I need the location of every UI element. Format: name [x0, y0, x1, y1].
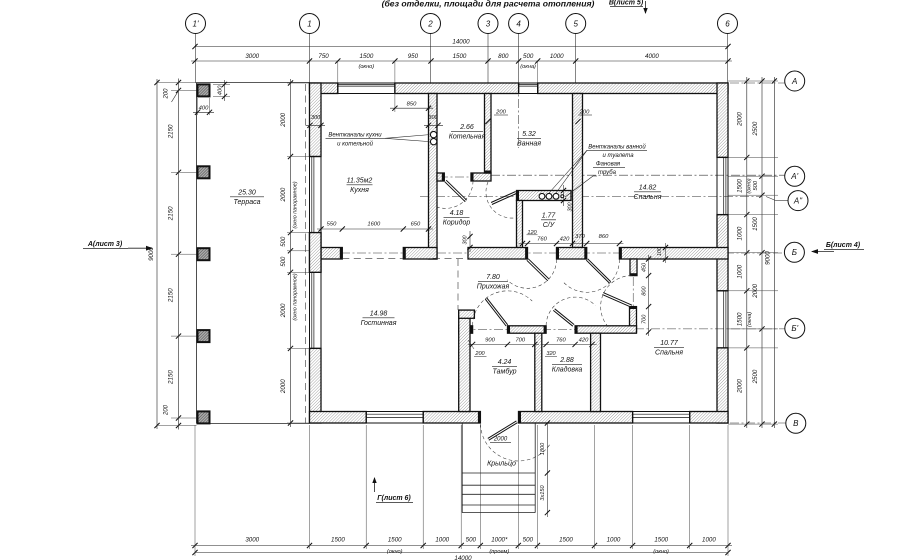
svg-text:1500: 1500: [559, 537, 573, 544]
svg-text:Крыльцо: Крыльцо: [487, 461, 516, 468]
svg-text:14000: 14000: [452, 39, 470, 46]
svg-text:1000: 1000: [435, 537, 449, 544]
svg-text:2000: 2000: [737, 112, 744, 127]
svg-text:2.66: 2.66: [459, 124, 474, 131]
svg-text:1500: 1500: [453, 53, 467, 60]
svg-text:(окно панорамное): (окно панорамное): [293, 181, 299, 228]
svg-text:1': 1': [193, 19, 199, 28]
svg-text:700: 700: [641, 314, 647, 324]
svg-text:Б': Б': [791, 324, 798, 333]
svg-text:650: 650: [411, 222, 421, 228]
svg-text:500: 500: [523, 537, 534, 544]
svg-text:370: 370: [575, 234, 585, 240]
svg-text:800: 800: [498, 53, 509, 60]
svg-text:Ванная: Ванная: [517, 141, 541, 148]
svg-text:200: 200: [495, 110, 506, 116]
svg-text:450: 450: [641, 262, 647, 272]
svg-text:9000: 9000: [148, 247, 155, 261]
svg-text:Гостинная: Гостинная: [361, 320, 397, 327]
svg-text:5.32: 5.32: [522, 131, 536, 138]
svg-text:(окно панорамное): (окно панорамное): [293, 273, 299, 320]
svg-text:3х150: 3х150: [540, 484, 546, 500]
svg-text:Прихожая: Прихожая: [477, 284, 510, 291]
svg-text:900: 900: [485, 337, 495, 343]
svg-text:2000: 2000: [493, 437, 508, 443]
svg-text:850: 850: [407, 102, 417, 108]
svg-text:700: 700: [515, 337, 525, 343]
svg-text:760: 760: [556, 337, 566, 343]
svg-text:Г(лист 6): Г(лист 6): [377, 495, 411, 502]
svg-text:200: 200: [164, 404, 170, 416]
svg-text:1500: 1500: [752, 217, 759, 231]
svg-text:860: 860: [599, 234, 609, 240]
svg-text:Кухня: Кухня: [350, 187, 369, 194]
svg-text:2: 2: [427, 19, 433, 28]
svg-text:2.88: 2.88: [559, 357, 574, 364]
svg-text:400: 400: [218, 85, 224, 95]
svg-text:Спальня: Спальня: [634, 194, 662, 201]
svg-text:550: 550: [327, 222, 337, 228]
svg-text:300: 300: [568, 203, 574, 212]
svg-text:1000: 1000: [737, 264, 744, 278]
svg-text:1000: 1000: [737, 226, 744, 240]
svg-text:(окно): (окно): [358, 64, 374, 70]
svg-text:420: 420: [560, 237, 570, 243]
svg-text:1.77: 1.77: [542, 213, 557, 220]
svg-text:Терраса: Терраса: [233, 199, 260, 206]
svg-text:Коридор: Коридор: [443, 219, 471, 227]
svg-text:1000: 1000: [550, 53, 564, 60]
svg-text:1500: 1500: [360, 53, 374, 60]
svg-text:(окно): (окно): [653, 549, 669, 555]
svg-text:300: 300: [428, 115, 438, 121]
svg-text:(окно): (окно): [747, 178, 753, 193]
svg-text:1: 1: [307, 19, 311, 28]
svg-text:1800: 1800: [540, 442, 546, 455]
svg-text:2000: 2000: [280, 379, 287, 394]
svg-text:Вентканалы кухни: Вентканалы кухни: [328, 133, 382, 139]
svg-text:А: А: [791, 77, 797, 86]
svg-text:2000: 2000: [737, 379, 744, 394]
svg-text:А": А": [793, 197, 803, 206]
svg-text:(проем): (проем): [489, 549, 509, 555]
svg-text:2000: 2000: [280, 303, 287, 318]
svg-text:100: 100: [657, 247, 663, 256]
svg-text:Котельная: Котельная: [449, 134, 486, 141]
svg-text:(окна): (окна): [747, 312, 753, 327]
svg-text:10.77: 10.77: [660, 340, 679, 347]
svg-text:Б(лист 4): Б(лист 4): [826, 242, 861, 249]
svg-text:200: 200: [164, 88, 170, 100]
svg-text:В: В: [793, 419, 799, 428]
svg-text:(окно): (окно): [387, 549, 403, 555]
svg-text:3000: 3000: [245, 53, 259, 60]
svg-text:4: 4: [516, 19, 521, 28]
svg-text:2000: 2000: [280, 187, 287, 202]
svg-text:500: 500: [523, 53, 534, 60]
svg-text:1000: 1000: [702, 537, 716, 544]
svg-text:950: 950: [408, 53, 419, 60]
svg-text:4.24: 4.24: [498, 359, 512, 366]
svg-text:2150: 2150: [168, 370, 175, 385]
svg-text:1600: 1600: [367, 222, 381, 228]
svg-text:Фановая: Фановая: [596, 162, 621, 168]
svg-text:1000: 1000: [607, 537, 621, 544]
svg-text:14000: 14000: [454, 555, 472, 560]
svg-text:и котельной: и котельной: [337, 140, 373, 147]
svg-text:11.35м2: 11.35м2: [347, 178, 373, 185]
svg-text:А(лист 3): А(лист 3): [87, 241, 123, 248]
svg-text:3: 3: [486, 19, 491, 28]
svg-text:Тамбур: Тамбур: [493, 368, 517, 376]
svg-text:4.18: 4.18: [450, 210, 464, 217]
svg-text:2500: 2500: [752, 369, 759, 384]
svg-text:500: 500: [281, 256, 287, 267]
svg-text:300: 300: [311, 115, 321, 121]
svg-text:(окна): (окна): [520, 64, 536, 70]
svg-text:2500: 2500: [752, 121, 759, 136]
svg-text:400: 400: [199, 106, 209, 112]
svg-text:4000: 4000: [645, 53, 659, 60]
svg-text:500: 500: [466, 537, 477, 544]
svg-text:труба: труба: [598, 170, 617, 176]
svg-text:5: 5: [573, 19, 578, 28]
svg-text:А': А': [790, 172, 798, 181]
svg-text:1500: 1500: [331, 537, 345, 544]
svg-text:1500: 1500: [654, 537, 668, 544]
svg-text:Вентканалы ванной: Вентканалы ванной: [588, 144, 646, 151]
svg-text:Кладовка: Кладовка: [552, 366, 583, 374]
svg-text:1500: 1500: [737, 312, 744, 326]
svg-text:420: 420: [579, 337, 589, 343]
svg-text:и туалета: и туалета: [602, 153, 634, 159]
svg-text:14.82: 14.82: [639, 185, 657, 192]
svg-text:В(лист 5): В(лист 5): [609, 0, 644, 7]
svg-text:1500: 1500: [388, 537, 402, 544]
svg-text:Спальня: Спальня: [655, 350, 683, 357]
svg-text:200: 200: [579, 110, 590, 116]
svg-text:25.30: 25.30: [237, 190, 256, 197]
svg-text:760: 760: [537, 237, 547, 243]
svg-text:(без отделки, площади для расч: (без отделки, площади для расчета отопле…: [382, 0, 595, 9]
svg-text:2150: 2150: [168, 206, 175, 221]
svg-text:2000: 2000: [280, 112, 287, 127]
svg-text:С/У: С/У: [543, 222, 556, 229]
svg-text:7.80: 7.80: [486, 274, 500, 281]
svg-text:14.98: 14.98: [370, 311, 388, 318]
svg-text:500: 500: [281, 236, 287, 247]
svg-text:1500: 1500: [737, 179, 744, 193]
svg-text:2150: 2150: [168, 288, 175, 303]
svg-text:2150: 2150: [168, 124, 175, 139]
svg-text:500: 500: [753, 180, 759, 190]
svg-text:800: 800: [641, 286, 647, 296]
svg-text:Б: Б: [792, 248, 797, 257]
svg-text:750: 750: [318, 53, 329, 60]
svg-text:300: 300: [463, 236, 469, 245]
svg-text:3000: 3000: [245, 537, 259, 544]
svg-text:1000*: 1000*: [491, 537, 508, 544]
svg-text:6: 6: [725, 19, 730, 28]
